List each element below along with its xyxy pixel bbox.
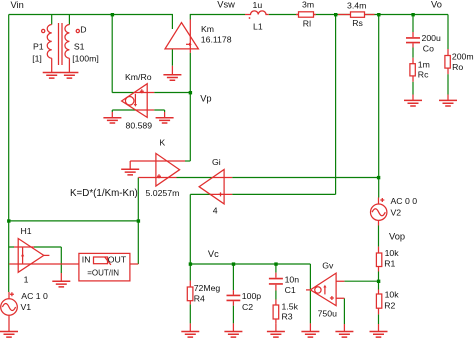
svg-text:10k: 10k bbox=[385, 248, 400, 258]
svg-text:4: 4 bbox=[213, 205, 218, 215]
svg-text:K: K bbox=[159, 138, 165, 148]
svg-text:OUT: OUT bbox=[108, 255, 127, 265]
svg-text:Rl: Rl bbox=[303, 19, 311, 29]
svg-text:D: D bbox=[80, 25, 86, 35]
svg-text:Gv: Gv bbox=[322, 261, 334, 271]
svg-text:16.1178: 16.1178 bbox=[201, 35, 232, 45]
svg-text:S1: S1 bbox=[74, 41, 85, 51]
svg-text:1: 1 bbox=[24, 275, 29, 285]
svg-text:Vo: Vo bbox=[431, 0, 442, 10]
svg-text:C2: C2 bbox=[242, 302, 253, 312]
svg-text:Gi: Gi bbox=[212, 157, 221, 167]
svg-text:[1]: [1] bbox=[32, 53, 42, 63]
svg-text:R2: R2 bbox=[384, 300, 395, 310]
svg-text:P1: P1 bbox=[33, 41, 44, 51]
svg-text:200u: 200u bbox=[422, 33, 441, 43]
svg-text:Km/Ro: Km/Ro bbox=[125, 72, 152, 82]
svg-text:V1: V1 bbox=[21, 302, 32, 312]
svg-text:100p: 100p bbox=[242, 291, 261, 301]
svg-text:Km: Km bbox=[201, 24, 214, 34]
svg-text:10n: 10n bbox=[285, 275, 300, 285]
svg-text:=OUT/IN: =OUT/IN bbox=[87, 269, 119, 278]
svg-text:750u: 750u bbox=[318, 308, 337, 318]
svg-text:R1: R1 bbox=[384, 259, 395, 269]
svg-text:IN: IN bbox=[82, 255, 91, 265]
svg-text:[100m]: [100m] bbox=[72, 53, 99, 63]
svg-text:R3: R3 bbox=[282, 312, 293, 322]
svg-text:Vp: Vp bbox=[200, 94, 211, 104]
svg-text:Vc: Vc bbox=[208, 249, 219, 259]
svg-text:K=D*(1/Km-Kn): K=D*(1/Km-Kn) bbox=[70, 188, 138, 199]
svg-text:H1: H1 bbox=[21, 226, 32, 236]
svg-text:Co: Co bbox=[423, 44, 434, 54]
svg-text:V2: V2 bbox=[391, 208, 402, 218]
svg-text:1m: 1m bbox=[418, 60, 430, 70]
svg-text:AC 1 0: AC 1 0 bbox=[21, 291, 48, 301]
svg-text:200m: 200m bbox=[452, 51, 474, 61]
svg-text:L1: L1 bbox=[253, 22, 263, 32]
svg-text:1u: 1u bbox=[253, 0, 263, 10]
svg-text:Vsw: Vsw bbox=[217, 0, 235, 10]
svg-text:R4: R4 bbox=[194, 293, 205, 303]
svg-text:Vop: Vop bbox=[389, 231, 405, 241]
svg-text:3.4m: 3.4m bbox=[347, 0, 366, 10]
svg-text:10k: 10k bbox=[385, 290, 400, 300]
svg-text:Rs: Rs bbox=[352, 18, 363, 28]
svg-text:AC 0 0: AC 0 0 bbox=[391, 196, 418, 206]
svg-text:80.589: 80.589 bbox=[126, 121, 153, 131]
svg-text:Vin: Vin bbox=[11, 0, 24, 10]
svg-text:C1: C1 bbox=[285, 285, 296, 295]
svg-text:5.0257m: 5.0257m bbox=[146, 188, 180, 198]
svg-text:Ro: Ro bbox=[452, 62, 463, 72]
svg-text:Rc: Rc bbox=[418, 69, 429, 79]
svg-text:1.5k: 1.5k bbox=[282, 301, 299, 311]
svg-text:3m: 3m bbox=[302, 0, 314, 10]
svg-text:72Meg: 72Meg bbox=[194, 283, 221, 293]
